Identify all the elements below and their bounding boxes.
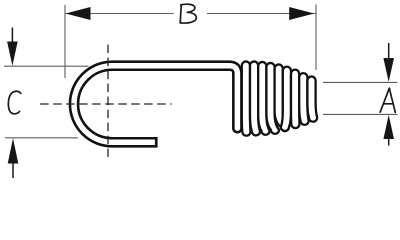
A bottom arrow stem bbox=[388, 138, 390, 146]
coil loop 6 bbox=[281, 67, 291, 131]
coil loop 1 bbox=[242, 61, 251, 135]
hook wire end round cap (white core) bbox=[235, 125, 241, 131]
C top arrowhead bbox=[7, 42, 18, 66]
B right extension line bbox=[315, 5, 317, 71]
C top arrow stem bbox=[11, 28, 13, 47]
hook wire end round cap (black) bbox=[232, 123, 243, 134]
coil loop 7 bbox=[291, 70, 300, 129]
B left extension line bbox=[64, 5, 66, 78]
label C bbox=[8, 91, 20, 114]
coil loop 9 bbox=[307, 76, 317, 121]
coil loop 5 bbox=[275, 64, 289, 131]
horizontal centerline (dashed) bbox=[40, 103, 171, 105]
hook body white core bbox=[74, 66, 237, 143]
coil loop 8 bbox=[299, 73, 309, 125]
B right arrowhead bbox=[289, 7, 314, 20]
A top arrow stem bbox=[388, 43, 390, 60]
coil loop 4 bbox=[266, 63, 279, 134]
dimension B line (left segment) bbox=[65, 13, 174, 15]
label B bbox=[180, 4, 196, 23]
C bottom arrow stem bbox=[12, 160, 14, 178]
C bottom extension line bbox=[5, 137, 78, 139]
A bottom extension line bbox=[323, 113, 398, 115]
label A bbox=[380, 88, 395, 112]
coil loop 3 bbox=[258, 62, 269, 135]
dimension B line (right segment) bbox=[207, 13, 316, 15]
A top arrowhead bbox=[383, 58, 394, 82]
C top extension line bbox=[4, 65, 89, 67]
vertical centerline (dashed) bbox=[107, 45, 109, 157]
B left arrowhead bbox=[66, 7, 91, 20]
A bottom arrowhead bbox=[383, 115, 394, 139]
hook body black outline bbox=[74, 66, 237, 143]
coil loop 2 bbox=[250, 61, 260, 135]
C bottom arrowhead bbox=[8, 138, 19, 163]
A top extension line bbox=[323, 81, 398, 83]
